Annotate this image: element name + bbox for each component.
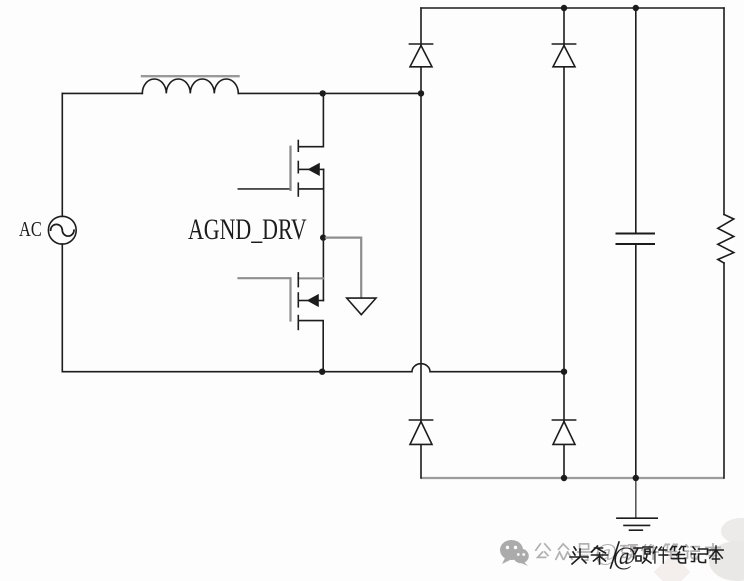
diode D4 xyxy=(552,420,575,444)
node top rail cap junction xyxy=(633,5,639,11)
watermark blob diamond xyxy=(654,554,691,581)
wire left bridge leg xyxy=(420,8,422,478)
node bottom rail cap junction xyxy=(633,475,639,481)
ground AGND triangle xyxy=(347,298,376,315)
node MOSFET top junction xyxy=(320,90,326,96)
watermark blob lower xyxy=(709,541,744,581)
wire inductor to bridge xyxy=(238,92,421,94)
wire right bridge leg xyxy=(563,8,565,478)
ground main output xyxy=(617,478,657,530)
transistor Q2 drain wire xyxy=(322,238,324,301)
wire AC top to inductor xyxy=(62,92,142,94)
watermark black text 头条/@硬件笔记本 xyxy=(570,542,723,570)
transistor Q2 channel xyxy=(297,273,299,330)
transistor Q1 drain wire xyxy=(298,93,323,146)
wire top rail xyxy=(421,7,724,9)
diode D3 xyxy=(409,420,432,444)
label AC xyxy=(19,218,42,241)
diode D1 xyxy=(409,44,432,67)
node AGND_DRV junction xyxy=(320,234,326,240)
resistor R load xyxy=(718,215,734,264)
node bottom return right junction xyxy=(561,369,567,375)
wire capacitor leg xyxy=(635,8,637,478)
watermark gray text 公众号@硬件笔记本 xyxy=(536,540,720,566)
node top rail right leg junction xyxy=(561,5,567,11)
transistor Q1 source wire xyxy=(298,169,323,237)
node bridge left top junction xyxy=(418,90,424,96)
inductor L1 xyxy=(142,79,238,93)
node bottom rail right leg junction xyxy=(561,475,567,481)
wire bottom rail xyxy=(422,477,723,479)
transistor Q1 channel xyxy=(297,141,299,197)
svg-text:AC: AC xyxy=(19,218,42,241)
transistor Q2 source wire xyxy=(298,321,323,372)
transistor Q2 gate xyxy=(239,278,291,320)
svg-text:AGND_DRV: AGND_DRV xyxy=(188,213,307,246)
AC source V1 xyxy=(48,93,76,371)
svg-text:@: @ xyxy=(613,543,636,570)
watermark blob upper xyxy=(721,518,744,544)
transistor Q2 body arrow xyxy=(298,295,323,306)
diode D2 xyxy=(552,44,575,67)
wire AGND to ground xyxy=(326,238,361,298)
capacitor C1 xyxy=(617,234,655,245)
transistor Q1 gate xyxy=(239,147,291,190)
node source bottom junction xyxy=(319,369,325,375)
transistor Q1 body arrow xyxy=(298,164,323,175)
watermark wechat icon xyxy=(500,540,529,566)
wire load leg xyxy=(723,8,725,478)
transistor Q2 drain stub xyxy=(298,277,323,279)
inductor core bar xyxy=(142,75,239,77)
wire bottom return xyxy=(62,364,564,372)
label AGND_DRV xyxy=(188,213,307,246)
